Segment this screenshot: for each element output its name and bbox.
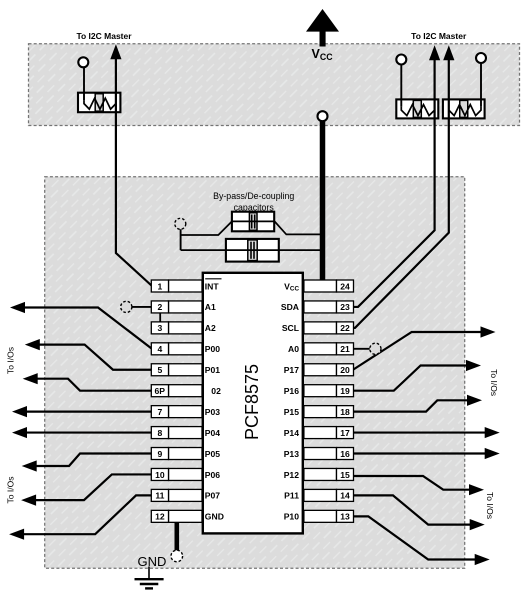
svg-text:P06: P06 xyxy=(205,470,221,480)
svg-text:By-pass/De-coupling: By-pass/De-coupling xyxy=(213,191,294,201)
svg-text:23: 23 xyxy=(340,302,350,312)
svg-text:PCF8575: PCF8575 xyxy=(242,364,262,440)
svg-text:INT: INT xyxy=(205,281,220,291)
svg-text:18: 18 xyxy=(340,407,350,417)
svg-text:P11: P11 xyxy=(284,491,299,501)
svg-text:To I/Os: To I/Os xyxy=(6,347,16,374)
svg-text:5: 5 xyxy=(158,365,163,375)
svg-text:4: 4 xyxy=(158,344,163,354)
svg-text:To I/Os: To I/Os xyxy=(6,477,16,504)
svg-text:P01: P01 xyxy=(205,365,221,375)
svg-text:To I2C Master: To I2C Master xyxy=(76,31,132,41)
svg-text:P17: P17 xyxy=(284,365,300,375)
svg-text:P05: P05 xyxy=(205,449,221,459)
svg-text:P16: P16 xyxy=(284,386,300,396)
svg-text:16: 16 xyxy=(340,449,350,459)
svg-text:P04: P04 xyxy=(205,428,221,438)
svg-text:To I2C Master: To I2C Master xyxy=(411,31,467,41)
svg-text:To I/Os: To I/Os xyxy=(485,492,495,519)
svg-text:8: 8 xyxy=(158,428,163,438)
svg-text:14: 14 xyxy=(340,491,350,501)
svg-text:22: 22 xyxy=(340,323,350,333)
svg-text:19: 19 xyxy=(340,386,350,396)
svg-text:A0: A0 xyxy=(288,344,299,354)
svg-text:15: 15 xyxy=(340,470,350,480)
svg-text:P10: P10 xyxy=(284,512,300,522)
svg-text:A1: A1 xyxy=(205,302,216,312)
svg-text:20: 20 xyxy=(340,365,350,375)
svg-text:A2: A2 xyxy=(205,323,216,333)
svg-text:12: 12 xyxy=(155,512,165,522)
svg-text:6P: 6P xyxy=(155,386,166,396)
svg-text:GND: GND xyxy=(138,554,167,569)
svg-text:24: 24 xyxy=(340,281,350,291)
svg-text:SCL: SCL xyxy=(282,323,299,333)
svg-text:17: 17 xyxy=(340,428,350,438)
svg-text:P07: P07 xyxy=(205,491,221,501)
svg-text:10: 10 xyxy=(155,470,165,480)
svg-text:11: 11 xyxy=(155,491,164,501)
svg-text:P14: P14 xyxy=(284,428,300,438)
svg-text:SDA: SDA xyxy=(281,302,299,312)
svg-text:2: 2 xyxy=(158,302,163,312)
svg-text:P15: P15 xyxy=(284,407,300,417)
svg-text:capacitors: capacitors xyxy=(234,203,275,213)
svg-text:21: 21 xyxy=(340,344,350,354)
svg-text:P03: P03 xyxy=(205,407,221,417)
svg-text:9: 9 xyxy=(158,449,163,459)
svg-text:P00: P00 xyxy=(205,344,221,354)
svg-text:P12: P12 xyxy=(284,470,300,480)
svg-text:GND: GND xyxy=(205,512,224,522)
svg-text:13: 13 xyxy=(340,512,350,522)
svg-text:1: 1 xyxy=(158,281,163,291)
svg-text:3: 3 xyxy=(158,323,163,333)
svg-text:7: 7 xyxy=(158,407,163,417)
svg-text:To I/Os: To I/Os xyxy=(489,369,499,396)
svg-text:P13: P13 xyxy=(284,449,300,459)
svg-text:02: 02 xyxy=(211,386,221,396)
